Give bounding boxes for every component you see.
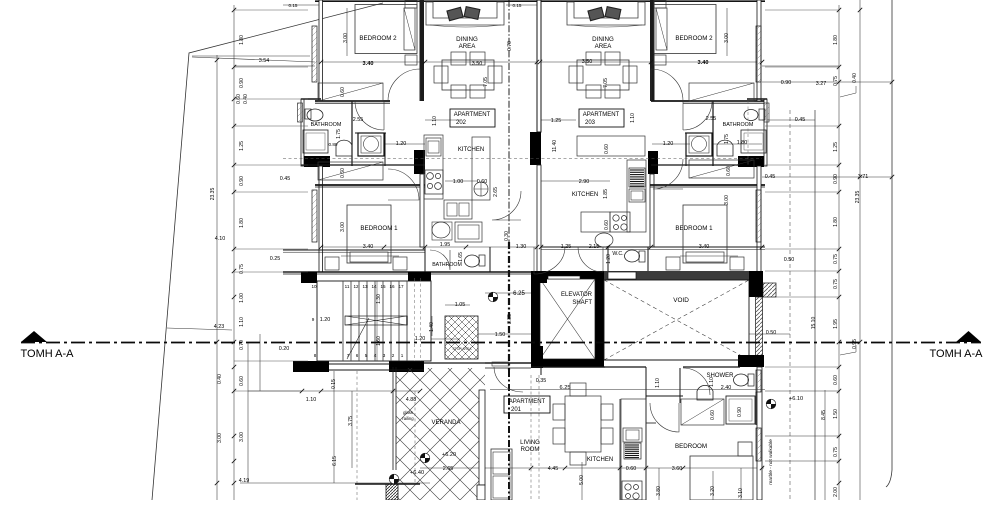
svg-text:0.60: 0.60 xyxy=(604,220,610,230)
sink 201 xyxy=(623,428,642,442)
dim row y181 xyxy=(445,180,478,182)
left outer wall upper xyxy=(319,0,323,101)
svg-text:6.25: 6.25 xyxy=(560,385,571,391)
svg-text:1.30: 1.30 xyxy=(516,244,527,250)
toilet shower room xyxy=(734,374,749,386)
left bathroom bump wall xyxy=(301,99,304,166)
stove left xyxy=(425,170,443,194)
stair diagonal xyxy=(347,318,369,359)
elevator door line xyxy=(548,276,580,279)
dining table right xyxy=(577,60,629,90)
svg-text:0.15: 0.15 xyxy=(289,3,298,8)
svg-text:17: 17 xyxy=(398,284,404,289)
section triangle left xyxy=(21,331,47,342)
svg-text:12: 12 xyxy=(353,284,359,289)
wall above bedroom1 left xyxy=(315,184,425,186)
right wall window bedroom xyxy=(756,428,761,461)
svg-text:BATHROOM: BATHROOM xyxy=(723,122,754,128)
living room east wall xyxy=(540,367,542,375)
apartment 203 box xyxy=(579,109,624,127)
svg-text:0.90: 0.90 xyxy=(239,78,245,88)
nightstands bedroom2 right xyxy=(654,0,666,8)
svg-text:1.10: 1.10 xyxy=(432,116,438,126)
dim row y391 right xyxy=(765,390,840,392)
svg-text:1.10: 1.10 xyxy=(239,317,245,327)
svg-text:0.75: 0.75 xyxy=(833,76,839,86)
svg-text:0.45: 0.45 xyxy=(765,174,776,180)
stair north-east pier xyxy=(408,272,431,281)
wall below elevator/void xyxy=(531,366,605,368)
wardrobe bedroom1 left xyxy=(318,162,383,180)
stair treads xyxy=(341,281,343,361)
dim ticks xyxy=(215,8,894,485)
void top window gap xyxy=(608,272,636,279)
dim row y246 xyxy=(321,246,537,248)
right outer wall bottom xyxy=(757,367,762,500)
svg-text:BATHROOM: BATHROOM xyxy=(432,262,462,268)
svg-text:0.90: 0.90 xyxy=(833,174,839,184)
interior wall left unit x420 xyxy=(420,0,425,101)
black pier kitchen left xyxy=(414,150,425,174)
dim line right column xyxy=(838,5,840,500)
kitchen 201 column xyxy=(621,399,646,500)
svg-text:0.20: 0.20 xyxy=(279,346,290,352)
central wall lower xyxy=(537,165,541,272)
door entry right apt xyxy=(578,247,603,272)
svg-text:marble - not walkable: marble - not walkable xyxy=(768,439,774,485)
svg-text:AREA: AREA xyxy=(459,43,477,50)
stop-area hatched square xyxy=(445,316,478,359)
kitchen left upper sink unit xyxy=(426,138,441,156)
svg-text:BEDROOM 2: BEDROOM 2 xyxy=(675,35,713,42)
right bathroom bump wall xyxy=(764,99,767,166)
svg-text:2.40: 2.40 xyxy=(721,385,732,391)
svg-text:2.65: 2.65 xyxy=(493,187,499,197)
veranda wall column bottom xyxy=(477,485,485,500)
svg-text:APARTMENT: APARTMENT xyxy=(583,112,620,118)
nightstands bedroom1 right xyxy=(666,257,680,270)
black pier right kitchen xyxy=(648,151,658,174)
svg-text:ELEVATOR: ELEVATOR xyxy=(561,292,593,298)
svg-text:3.40: 3.40 xyxy=(363,244,374,250)
svg-text:3.71: 3.71 xyxy=(858,174,869,180)
nightstands bedroom2 left xyxy=(405,0,417,8)
black pier bathroom left xyxy=(304,156,330,167)
svg-text:0.50: 0.50 xyxy=(784,257,795,263)
svg-text:BEDROOM 1: BEDROOM 1 xyxy=(675,225,713,232)
sofa dining right xyxy=(567,2,645,25)
svg-text:1.20: 1.20 xyxy=(415,336,426,342)
void top wall xyxy=(604,271,750,280)
door left bathroom upper xyxy=(355,101,384,130)
svg-text:4.45: 4.45 xyxy=(548,466,559,472)
svg-text:203: 203 xyxy=(585,120,596,126)
shower tray 201 xyxy=(726,396,755,424)
svg-text:9: 9 xyxy=(312,317,315,322)
stair south-west pier xyxy=(293,361,329,372)
left wall window bedroom1 xyxy=(312,190,317,242)
dashed handrail stairs xyxy=(414,278,416,361)
sink right xyxy=(629,189,645,202)
dim line top y5 xyxy=(283,4,320,6)
wardrobe bedroom2 left xyxy=(318,83,383,101)
corridor wall y272 left xyxy=(283,271,531,273)
dim line right 8.45 xyxy=(824,390,826,500)
toilet bathroom right xyxy=(744,110,758,121)
svg-text:BATHROOM: BATHROOM xyxy=(311,122,342,128)
svg-text:1.25: 1.25 xyxy=(833,142,839,152)
svg-text:3.00: 3.00 xyxy=(340,222,346,232)
svg-text:1.25: 1.25 xyxy=(239,141,245,151)
bathroom internal walls right xyxy=(712,101,714,166)
svg-text:201: 201 xyxy=(511,407,522,413)
wall above bedroom1 right xyxy=(650,184,765,186)
svg-text:8: 8 xyxy=(314,353,317,358)
svg-text:13: 13 xyxy=(362,284,368,289)
svg-text:1.20: 1.20 xyxy=(606,254,612,264)
svg-text:15.10: 15.10 xyxy=(811,317,817,330)
dim row y468 bottom xyxy=(420,467,764,469)
veranda crosshatch xyxy=(396,368,485,500)
svg-text:3.60: 3.60 xyxy=(672,466,683,472)
bed bedroom2 right xyxy=(654,5,716,54)
counter right lower xyxy=(581,212,610,232)
svg-text:KITCHEN: KITCHEN xyxy=(587,457,613,463)
svg-text:3: 3 xyxy=(383,353,386,358)
washbasin left xyxy=(432,222,450,238)
svg-text:TOMH A-A: TOMH A-A xyxy=(21,348,75,360)
headboard line bedroom1 right xyxy=(680,255,738,257)
door bedroom2 right xyxy=(651,69,683,101)
svg-text:DINING: DINING xyxy=(592,36,614,43)
nightstands bedroom1 left xyxy=(325,257,339,270)
right outer wall bedroom1 xyxy=(757,166,761,272)
pier left of elevator top xyxy=(531,272,547,283)
fridge 201 xyxy=(624,443,641,459)
washbasin right xyxy=(595,233,613,247)
veranda east wall xyxy=(479,390,485,485)
stove right xyxy=(610,212,630,232)
right wall window bedroom1 xyxy=(756,190,761,242)
dim vertical bottom-left cols xyxy=(247,342,249,483)
void south-east pier xyxy=(738,355,764,367)
svg-text:16: 16 xyxy=(389,284,395,289)
svg-text:SHOWER: SHOWER xyxy=(707,373,735,379)
window bathroom left xyxy=(298,103,303,122)
black pier central xyxy=(530,132,541,165)
svg-text:5.00: 5.00 xyxy=(579,475,585,485)
svg-text:1.10: 1.10 xyxy=(655,378,661,388)
svg-text:0.50: 0.50 xyxy=(766,330,777,336)
shower room walls xyxy=(531,366,646,368)
apartment 202 box xyxy=(450,109,495,127)
svg-text:SHAFT: SHAFT xyxy=(572,300,592,306)
dim row y82 right xyxy=(762,81,892,83)
dim row y436 right xyxy=(765,435,840,437)
svg-text:1.20: 1.20 xyxy=(663,141,674,147)
dim row y461 right xyxy=(765,460,840,462)
svg-text:2.00: 2.00 xyxy=(833,487,839,497)
bed 201 xyxy=(690,456,753,500)
void interior xyxy=(604,280,749,360)
svg-text:6: 6 xyxy=(356,353,359,358)
svg-text:3.75: 3.75 xyxy=(348,416,354,426)
svg-text:7: 7 xyxy=(347,353,350,358)
svg-text:1.95: 1.95 xyxy=(440,242,451,248)
level symbol 6.10 xyxy=(766,399,776,409)
svg-text:1.75: 1.75 xyxy=(336,129,342,139)
svg-text:0.40: 0.40 xyxy=(852,73,858,83)
svg-text:0.60: 0.60 xyxy=(239,376,245,386)
svg-text:3.27: 3.27 xyxy=(816,81,827,87)
toilet bathroom 201 xyxy=(465,255,480,267)
svg-text:1.50: 1.50 xyxy=(495,332,506,338)
kitchen island left xyxy=(472,137,490,200)
shower right pier xyxy=(740,355,764,367)
door bedroom1 right xyxy=(653,159,683,189)
elevator interior xyxy=(540,279,595,359)
dim line left column xyxy=(233,5,235,500)
bed bedroom1 left xyxy=(347,205,391,263)
stair outline xyxy=(317,281,431,361)
interior wall right unit x650 xyxy=(650,0,655,101)
svg-text:AREA: AREA xyxy=(595,43,613,50)
sofa cushions right xyxy=(588,7,621,21)
extension lines right xyxy=(765,9,839,11)
sink bathroom left xyxy=(336,140,352,156)
wall under bedroom2 right xyxy=(651,100,765,102)
svg-text:LIVING: LIVING xyxy=(520,440,540,446)
svg-text:3.00: 3.00 xyxy=(724,195,730,205)
right outer wall upper xyxy=(757,0,761,101)
svg-text:DINING: DINING xyxy=(456,36,478,43)
svg-text:11: 11 xyxy=(345,284,350,289)
bed 201 headboard xyxy=(738,442,752,456)
svg-text:glass: glass xyxy=(403,410,413,415)
sofa dining left xyxy=(426,2,504,25)
svg-text:1.85: 1.85 xyxy=(603,189,609,199)
dim row y144 xyxy=(384,143,425,145)
svg-text:+6.10: +6.10 xyxy=(789,396,803,402)
stair south-mid pier xyxy=(389,361,424,372)
svg-text:23.35: 23.35 xyxy=(210,188,216,201)
dim row y293 xyxy=(485,292,540,294)
svg-text:0.75: 0.75 xyxy=(239,264,245,274)
leader 4.23 xyxy=(167,328,232,330)
leader 3.54 xyxy=(192,55,310,57)
svg-text:W.C.: W.C. xyxy=(612,251,623,257)
svg-text:14: 14 xyxy=(371,284,377,289)
svg-text:3.54: 3.54 xyxy=(259,58,270,64)
svg-text:BEDROOM 1: BEDROOM 1 xyxy=(360,225,398,232)
svg-text:0.60: 0.60 xyxy=(833,375,839,385)
svg-text:KITCHEN: KITCHEN xyxy=(572,192,598,198)
shaft right 0.75 xyxy=(686,133,712,156)
svg-text:ROOM: ROOM xyxy=(521,447,540,453)
sofa 201 xyxy=(491,449,512,500)
svg-text:0.75: 0.75 xyxy=(833,447,839,457)
toilet wc xyxy=(625,250,640,262)
svg-text:2.55: 2.55 xyxy=(353,117,364,123)
svg-text:TOMH A-A: TOMH A-A xyxy=(930,348,984,360)
svg-text:0.90: 0.90 xyxy=(781,80,792,86)
svg-text:0.90: 0.90 xyxy=(239,176,245,186)
level symbol veranda 6.40 xyxy=(389,474,399,484)
door bedroom2 left xyxy=(388,69,420,101)
leader elbow 0.40 right xyxy=(840,86,856,97)
elevator X xyxy=(540,279,595,359)
apartment 201 walls xyxy=(485,362,531,364)
void east pier top xyxy=(749,271,763,297)
dining table left xyxy=(442,60,494,90)
bed bedroom1 right xyxy=(683,205,727,263)
svg-text:1.00: 1.00 xyxy=(453,179,464,185)
veranda south gray block xyxy=(386,484,398,500)
dim row y483 bottom-left xyxy=(240,482,430,484)
svg-text:23.35: 23.35 xyxy=(855,191,861,204)
svg-text:3.40: 3.40 xyxy=(363,61,374,67)
svg-text:3.00: 3.00 xyxy=(217,433,223,443)
bathroom internal walls left xyxy=(351,101,353,166)
svg-text:1: 1 xyxy=(401,353,404,358)
central wall x537 xyxy=(537,0,541,132)
leader elbow 0.95 right xyxy=(840,345,856,355)
headboard line bedroom1 left xyxy=(341,255,399,257)
bathroom 201 walls xyxy=(424,247,426,272)
lot boundary left xyxy=(152,3,383,500)
interior wall left unit lower xyxy=(420,174,424,247)
dim col 3.80/3.20/3.10 xyxy=(658,468,660,500)
svg-text:3.10: 3.10 xyxy=(738,488,744,498)
section triangle right xyxy=(956,331,981,342)
level symbol corridor xyxy=(488,292,498,302)
wardrobe bedroom2 right xyxy=(689,83,754,101)
dim row y62 left xyxy=(189,56,540,62)
svg-text:3.50: 3.50 xyxy=(472,61,483,67)
svg-text:VOID: VOID xyxy=(673,297,689,304)
pier left of elevator bottom xyxy=(531,346,543,368)
svg-text:0.25: 0.25 xyxy=(270,256,281,262)
window bathroom right xyxy=(764,103,769,122)
sofa cushions left xyxy=(447,7,480,21)
wc walls right xyxy=(607,247,609,272)
svg-text:1.10: 1.10 xyxy=(306,397,317,403)
door veranda xyxy=(494,367,523,392)
dim row y389 bottom xyxy=(490,389,765,391)
toilet bathroom left xyxy=(307,109,323,121)
left outer wall bedroom1 xyxy=(319,166,323,272)
door shower room xyxy=(683,368,710,395)
svg-text:APARTMENT: APARTMENT xyxy=(509,399,546,405)
overhang dashed line xyxy=(283,158,762,160)
void X dashed xyxy=(604,280,749,360)
svg-text:2.90: 2.90 xyxy=(579,179,590,185)
section line A-A xyxy=(21,342,981,344)
bed bedroom2 left xyxy=(355,5,417,54)
dashed line shower right xyxy=(747,101,749,165)
bedroom/kitchen dividing wall xyxy=(645,398,647,500)
svg-text:1.25: 1.25 xyxy=(551,118,562,124)
stair landing X xyxy=(345,316,407,325)
svg-text:2.85: 2.85 xyxy=(507,314,513,324)
shaft left 0.75 xyxy=(358,133,384,156)
svg-text:0.70: 0.70 xyxy=(507,41,513,51)
svg-text:1.80: 1.80 xyxy=(833,217,839,227)
door bedroom 201 xyxy=(650,403,679,432)
kitchen left counter column xyxy=(424,135,443,199)
door bedroom1 left xyxy=(388,169,419,200)
svg-text:1.75: 1.75 xyxy=(724,134,730,144)
svg-text:0.15: 0.15 xyxy=(513,3,522,8)
svg-text:4.19: 4.19 xyxy=(239,478,250,484)
svg-text:1.50: 1.50 xyxy=(833,409,839,419)
svg-text:1.00: 1.00 xyxy=(239,293,245,303)
svg-text:0.45: 0.45 xyxy=(280,176,291,182)
svg-text:1.80: 1.80 xyxy=(737,140,748,146)
level symbol veranda 6.20 xyxy=(420,453,430,463)
bottom unit inner walls xyxy=(645,367,647,398)
section grid line vertical (dash-dot) xyxy=(508,0,510,242)
dim col bottom 5.00 xyxy=(581,462,583,500)
dining table 201 xyxy=(565,396,601,452)
svg-text:3.00: 3.00 xyxy=(724,33,730,43)
svg-text:7.05: 7.05 xyxy=(603,78,609,88)
wardrobe 201 xyxy=(681,399,724,425)
svg-text:1.80: 1.80 xyxy=(239,35,245,45)
leader 3.71 xyxy=(762,176,892,178)
kitchen left sink lower xyxy=(444,200,472,219)
dim line left 23.35 xyxy=(216,55,218,500)
appliance left xyxy=(455,222,482,242)
svg-text:0.75: 0.75 xyxy=(833,279,839,289)
svg-text:0.70: 0.70 xyxy=(239,340,245,350)
dim line right 23.35 xyxy=(859,0,861,500)
svg-text:5: 5 xyxy=(365,353,368,358)
svg-text:3.00: 3.00 xyxy=(343,33,349,43)
svg-text:3.80: 3.80 xyxy=(656,486,662,496)
bottom top wall segments xyxy=(329,363,390,365)
dim row y120 xyxy=(425,119,460,121)
door entry left apt xyxy=(534,247,565,274)
wall under bedroom2 left xyxy=(315,100,390,102)
svg-text:0.90: 0.90 xyxy=(737,407,743,417)
svg-text:10: 10 xyxy=(311,284,317,289)
svg-text:0.30: 0.30 xyxy=(504,231,510,241)
svg-text:1.80: 1.80 xyxy=(833,35,839,45)
svg-text:202: 202 xyxy=(456,120,467,126)
svg-text:4.10: 4.10 xyxy=(215,236,226,242)
svg-text:BEDROOM: BEDROOM xyxy=(675,443,707,450)
svg-text:KITCHEN: KITCHEN xyxy=(458,147,484,153)
svg-text:1.80: 1.80 xyxy=(239,218,245,228)
svg-text:APARTMENT: APARTMENT xyxy=(454,112,491,118)
svg-text:6.25: 6.25 xyxy=(513,291,525,297)
door right bathroom upper xyxy=(683,101,712,130)
wall y250 left xyxy=(283,249,425,251)
svg-text:3.20: 3.20 xyxy=(710,486,716,496)
left outer wall window bedroom2 xyxy=(312,26,317,82)
shower tray left xyxy=(303,130,328,153)
lot line right inner xyxy=(814,110,816,500)
svg-text:0.75: 0.75 xyxy=(833,254,839,264)
dim row y62 right xyxy=(540,61,762,63)
right wall window shower xyxy=(756,370,761,392)
dashed grid right xyxy=(789,110,791,500)
svg-text:1.65: 1.65 xyxy=(458,252,464,262)
void east hatched wall xyxy=(756,297,763,357)
elevator shaft walls xyxy=(531,271,604,279)
lot boundary right xyxy=(886,0,892,487)
